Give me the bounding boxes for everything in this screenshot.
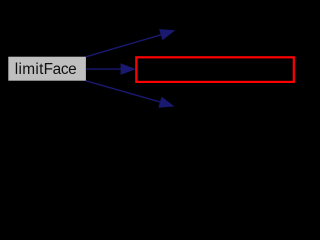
- edge arrow to lower-right node (off-image): [86, 81, 175, 108]
- node truncated (red border, empty): [136, 57, 293, 82]
- svg-text:limitFace: limitFace: [15, 61, 77, 78]
- node limitFace (current node, grey fill): [8, 57, 86, 81]
- edge arrow to red node: [86, 63, 136, 75]
- edge arrow to upper-right node (off-image): [86, 29, 175, 57]
